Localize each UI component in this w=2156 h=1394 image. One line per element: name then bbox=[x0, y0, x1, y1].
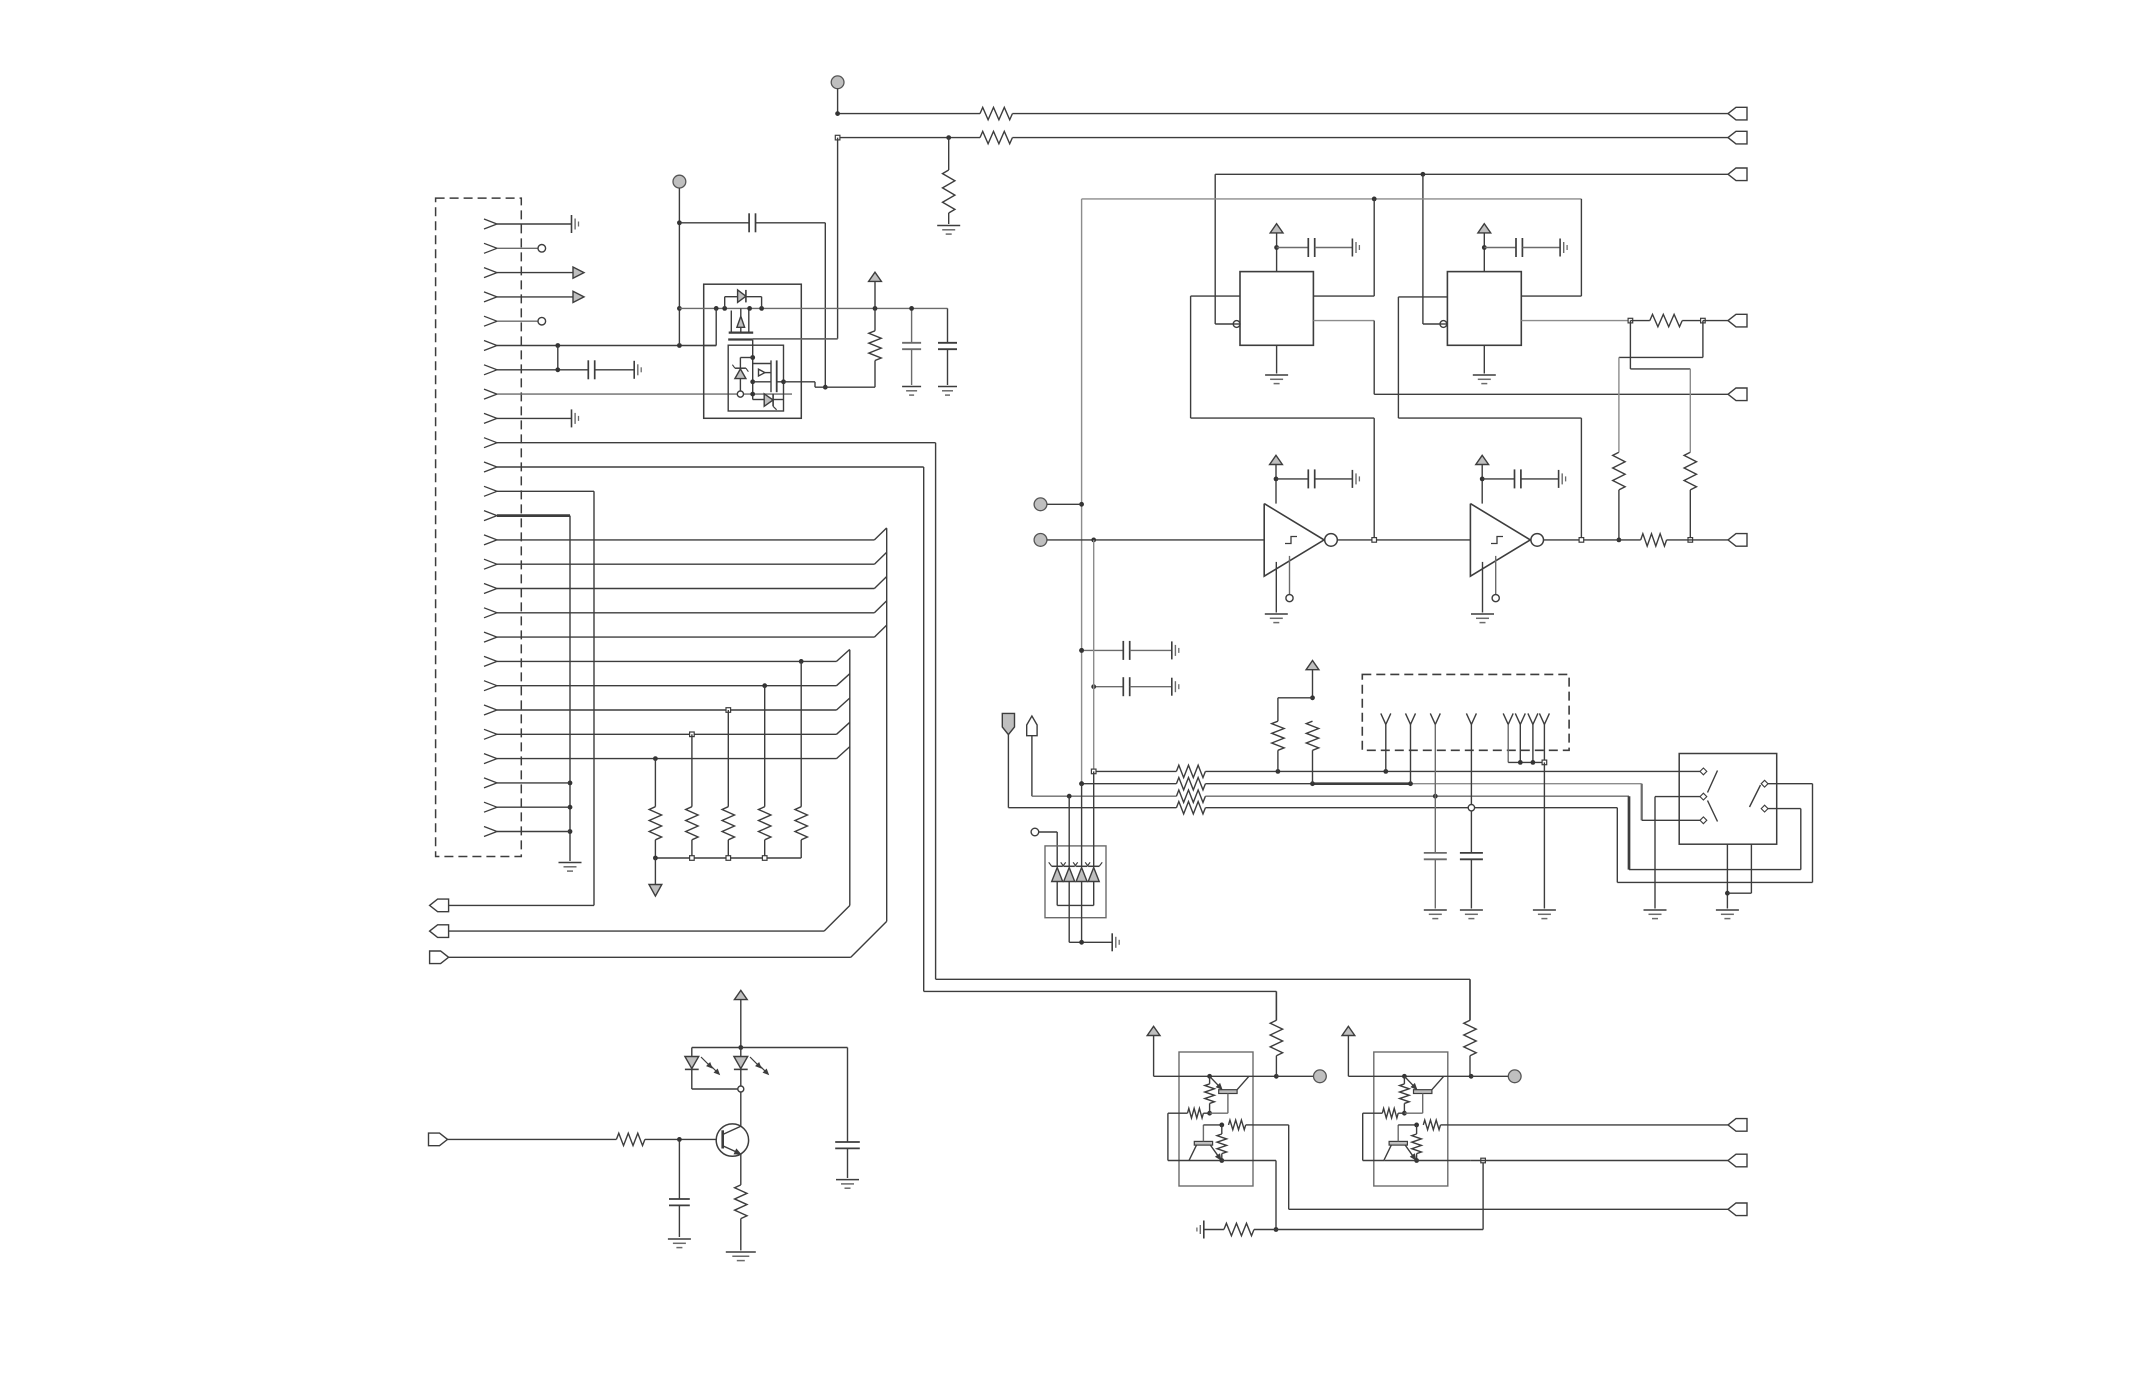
wire C6 link bbox=[1094, 686, 1124, 688]
wire C4 to ground bbox=[1521, 478, 1559, 480]
terminal X13 bbox=[1728, 1203, 1747, 1216]
wire C6 to ground bbox=[1130, 686, 1172, 688]
wire C2 link bbox=[1484, 247, 1516, 249]
wire J1-15 merge bbox=[497, 563, 874, 565]
resistor R33 bbox=[1204, 1229, 1224, 1231]
switch U6 box bbox=[1679, 754, 1777, 845]
ground GND11 bbox=[1171, 678, 1173, 696]
pin D5 nc bbox=[1031, 828, 1039, 836]
wire Q1 input path bbox=[1253, 1124, 1289, 1126]
wire bus W3 bbox=[1032, 795, 1177, 797]
wire bus W4 bbox=[1008, 807, 1176, 809]
ground GND17 bbox=[1111, 933, 1113, 951]
capacitor C4 bbox=[1514, 469, 1516, 488]
resistor R23 bbox=[1270, 1020, 1282, 1055]
capacitor C1 bbox=[1307, 238, 1309, 257]
terminal X2 bbox=[1728, 131, 1747, 144]
terminal X5 bbox=[1728, 314, 1747, 327]
resistor R4 bbox=[1650, 314, 1682, 326]
wire J1-12 long bbox=[497, 490, 594, 492]
node TP6 bbox=[1471, 1075, 1508, 1077]
capacitor C14 bbox=[741, 1047, 848, 1049]
terminal X1 bbox=[1728, 107, 1747, 120]
pin U6-D bbox=[1761, 780, 1768, 787]
transistor block Q2 box bbox=[1374, 1052, 1448, 1186]
wire U3 ground pin bbox=[1483, 345, 1485, 373]
transistor block Q1 box bbox=[1179, 1052, 1253, 1186]
wire Q1a base bbox=[1227, 1094, 1229, 1114]
flag terminal F2 bbox=[1027, 716, 1037, 736]
resistor R5 bbox=[1684, 452, 1696, 490]
transistor Q1a (pnp) bbox=[1210, 1076, 1222, 1089]
flag terminal F1 bbox=[1002, 713, 1014, 734]
wire J2 shield bus bbox=[1508, 761, 1544, 763]
wire Q1 collector rail bbox=[1179, 1075, 1276, 1077]
ground GND13 bbox=[1424, 909, 1447, 911]
wire led anode join bbox=[692, 1088, 741, 1090]
resistor R15 bbox=[764, 686, 766, 807]
wire clock loop bbox=[1082, 198, 1582, 200]
ground GND24 bbox=[668, 1238, 691, 1240]
resistor R23 feed bbox=[1275, 991, 1277, 1020]
pin J1-13 bbox=[484, 511, 497, 521]
capacitor C5 bbox=[1122, 641, 1124, 660]
wire J1-6 entry bbox=[704, 345, 717, 347]
pin J2-5 bbox=[1503, 713, 1513, 724]
pin J1-23 bbox=[484, 754, 497, 764]
node TP3 bbox=[1034, 534, 1047, 547]
wire Q2 collector rail bbox=[1374, 1075, 1471, 1077]
wire net2 second rail bbox=[838, 137, 980, 139]
pin J1-14 bbox=[484, 535, 497, 545]
pin J2-3 bbox=[1430, 713, 1440, 724]
block U1 box bbox=[704, 284, 802, 418]
terminal X10 bbox=[429, 1133, 448, 1146]
wire J1-24 bbox=[497, 782, 570, 784]
wire C1 to ground bbox=[1315, 247, 1353, 249]
wire Q2 input path bbox=[1448, 1124, 1728, 1126]
block U1 inner box bbox=[728, 345, 783, 411]
wire TP3 drop bbox=[1093, 540, 1095, 772]
resistor R3 bbox=[943, 170, 955, 213]
wire Q1 bottom rail bbox=[1190, 1160, 1276, 1162]
power VCC U3 bbox=[1478, 224, 1491, 233]
wire R4 leads bbox=[1630, 320, 1649, 322]
wire C10 loop bbox=[756, 222, 826, 224]
wire J1-22 merge bbox=[497, 733, 837, 735]
switch lever S1a bbox=[1708, 771, 1718, 793]
pin J1-9 bbox=[484, 413, 497, 423]
power VCC Q1 bbox=[1147, 1026, 1160, 1035]
ground GND5 bbox=[1473, 374, 1496, 376]
led D4b bbox=[740, 1048, 742, 1057]
power VCC U5 bbox=[1476, 455, 1489, 464]
wire J1-9 to ground bbox=[497, 417, 572, 419]
wire C5 link bbox=[1082, 649, 1124, 651]
terminal X6 bbox=[1728, 534, 1747, 547]
pin J2-6 bbox=[1515, 713, 1525, 724]
pin J2-1 bbox=[1381, 713, 1391, 724]
pin J1-7 bbox=[484, 365, 497, 375]
resistor R17 bbox=[691, 734, 693, 806]
resistor R14 bbox=[800, 661, 802, 806]
pin U6-E bbox=[1761, 805, 1768, 812]
ground GND23 bbox=[938, 386, 957, 388]
wire U3 feedback bbox=[1398, 296, 1447, 298]
connector J1 (dashed) bbox=[436, 198, 522, 856]
wire U2 ground pin bbox=[1276, 345, 1278, 373]
wire M1 gate bbox=[753, 338, 838, 340]
wire to U3 enable bbox=[1422, 174, 1424, 324]
resistor R16 bbox=[727, 710, 729, 807]
resistor R18 bbox=[654, 759, 656, 807]
ground GND7 bbox=[1265, 613, 1288, 615]
ground GND12 bbox=[1533, 909, 1556, 911]
wire Q2 bottom out bbox=[1471, 1160, 1728, 1162]
pin J1-11 bbox=[484, 462, 497, 472]
wire R7 to terminal bbox=[1667, 539, 1728, 541]
pin J1-19 bbox=[484, 656, 497, 666]
wire C5 to ground bbox=[1130, 649, 1172, 651]
power VCC U2 bbox=[1270, 224, 1283, 233]
pin J1-6 bbox=[484, 341, 497, 351]
wire U6-B to ground bbox=[1655, 796, 1700, 798]
resistor R24 feed bbox=[1469, 979, 1471, 1020]
node TP2 bbox=[1034, 498, 1047, 511]
pin J2-8 bbox=[1539, 713, 1549, 724]
wire J1-17 merge bbox=[497, 612, 874, 614]
pin J1-22 bbox=[484, 729, 497, 739]
wire TP1 gate drop bbox=[837, 138, 839, 339]
wire M2 gate node bbox=[752, 345, 754, 399]
wire D5b feed bbox=[1068, 796, 1070, 866]
resistor R20 bbox=[616, 1133, 645, 1145]
zener D2 bbox=[739, 358, 741, 369]
capacitor C9 bbox=[587, 360, 589, 379]
wire emitter bus bbox=[1276, 1229, 1483, 1231]
wire J1-16 merge bbox=[497, 588, 874, 590]
resistor R27 (input) bbox=[1188, 1108, 1204, 1118]
wire to U2 enable bbox=[1214, 174, 1216, 324]
wire M2 output bbox=[784, 381, 816, 383]
switch lever S2 bbox=[1750, 785, 1761, 807]
wire bus W2 bbox=[1082, 783, 1177, 785]
wire J1-26 bbox=[497, 831, 570, 833]
pin J1-3 bbox=[484, 268, 497, 278]
pin J1-10 bbox=[484, 438, 497, 448]
wire U1 vcc rail bbox=[679, 307, 947, 309]
power VCC U4 bbox=[1270, 455, 1283, 464]
resistor R29 (b-e) bbox=[1217, 1134, 1227, 1154]
power VCC opto bbox=[869, 272, 882, 281]
capacitor C3 bbox=[1307, 469, 1309, 488]
wire Q1b base bbox=[1202, 1125, 1204, 1142]
ground GND9 bbox=[1471, 613, 1494, 615]
capacitor C13 bbox=[678, 1139, 680, 1199]
terminal X12 bbox=[1728, 1154, 1747, 1167]
resistor R31 (input2) bbox=[1229, 1120, 1246, 1130]
wire C1 link bbox=[1277, 247, 1309, 249]
ground GND19 bbox=[633, 361, 635, 379]
ground GND6 bbox=[1351, 470, 1353, 488]
wire U5 out bbox=[1544, 539, 1641, 541]
capacitor C7 bbox=[1434, 796, 1436, 853]
led D4a arrows bbox=[701, 1057, 712, 1068]
zener D3 bbox=[753, 399, 765, 401]
wire Q2 bottom rail bbox=[1385, 1160, 1471, 1162]
wire J1-13 (bold) bbox=[497, 514, 570, 517]
transistor Q2b (npn) bbox=[1389, 1141, 1407, 1145]
terminal X4 bbox=[1728, 388, 1747, 401]
wire R19 bottom bbox=[841, 386, 875, 388]
wire resistor rail bbox=[655, 857, 801, 859]
led D4a bbox=[685, 1057, 699, 1069]
resistor R24 bbox=[1464, 1020, 1476, 1055]
wire J1-25 bbox=[497, 806, 570, 808]
pin U5 nc bbox=[1495, 556, 1497, 595]
pin J1-25 bbox=[484, 802, 497, 812]
capacitor C12 bbox=[947, 308, 949, 342]
inverter U4 bbox=[1264, 504, 1324, 577]
wire J1-23 merge bbox=[497, 758, 837, 760]
pin J1-1 bbox=[484, 219, 497, 229]
node TP1 (test point, top) bbox=[831, 76, 844, 89]
wire Q1 base line bbox=[447, 1138, 616, 1140]
power VCC led bbox=[734, 990, 747, 999]
resistor R2 bbox=[980, 131, 1012, 143]
resistor R30 (b-e) bbox=[1412, 1134, 1422, 1154]
pin J1-12 bbox=[484, 486, 497, 496]
pin U6-A bbox=[1700, 768, 1707, 775]
resistor R26 (base) bbox=[1400, 1084, 1410, 1104]
terminal X8 bbox=[430, 951, 449, 964]
wire C3 to ground bbox=[1315, 478, 1353, 480]
inverter U5 bbox=[1470, 504, 1530, 577]
oscillator U2 bbox=[1240, 272, 1313, 346]
wire C2 to ground bbox=[1522, 247, 1560, 249]
wire J1-7 cap link bbox=[497, 369, 588, 371]
wire Q2a base bbox=[1422, 1094, 1424, 1114]
wire J1-19 merge bbox=[497, 660, 837, 662]
diodes D5a-D5d (zener array) bbox=[1052, 865, 1063, 867]
wire U2 out row1 bbox=[1313, 295, 1374, 297]
terminal X3 bbox=[1728, 168, 1747, 181]
transistor Q1 bbox=[716, 1124, 748, 1156]
terminal X9 bbox=[430, 925, 449, 938]
pin J1-2 bbox=[484, 243, 497, 253]
wire J1-6 to U1 bbox=[497, 345, 716, 347]
transistor M2 (n-fet) bbox=[770, 360, 772, 392]
wire U2 out row2 bbox=[1313, 320, 1374, 322]
wire Q1 left loop bbox=[1168, 1112, 1179, 1114]
wire R5 leads bbox=[1689, 369, 1691, 452]
power VCC R12R13 bbox=[1306, 661, 1319, 670]
wire net3 third rail bbox=[1215, 173, 1728, 175]
wire bus W1 bbox=[1094, 770, 1177, 772]
pin U4 nc bbox=[1289, 556, 1291, 595]
capacitor C6 bbox=[1122, 677, 1124, 696]
switch lever S1b bbox=[1708, 801, 1718, 822]
wire R3 feed bbox=[948, 138, 950, 170]
resistor R7 bbox=[1641, 534, 1667, 546]
resistor R21 bbox=[735, 1185, 747, 1219]
wire U2 feedback bbox=[1191, 295, 1240, 297]
pin J1-18 bbox=[484, 632, 497, 642]
pin J2-4 bbox=[1466, 713, 1476, 724]
wire collector B bbox=[849, 650, 851, 906]
wire C3 link bbox=[1276, 478, 1308, 480]
wire led top rail bbox=[692, 1047, 741, 1049]
connector J2 (dashed) bbox=[1362, 674, 1569, 750]
transistor M1 (p-fet) bbox=[740, 308, 742, 316]
diode D1 bbox=[724, 297, 726, 309]
pin J1-4 bbox=[484, 292, 497, 302]
pin J1-5 bbox=[484, 316, 497, 326]
pin U2 enable bubble bbox=[1233, 321, 1240, 328]
wire J1-1 to ground bbox=[497, 223, 572, 225]
pin J1-24 bbox=[484, 778, 497, 788]
pin J1-26 bbox=[484, 827, 497, 837]
wire D5 anode rail bbox=[1057, 904, 1094, 906]
transistor Q2a (pnp) bbox=[1404, 1076, 1416, 1089]
ground GND14 bbox=[1460, 909, 1483, 911]
resistor R12 bbox=[1272, 721, 1284, 750]
pin J1-16 bbox=[484, 584, 497, 594]
resistor R25 (base) bbox=[1205, 1084, 1215, 1104]
wire J1-18 merge bbox=[497, 636, 874, 638]
pin J1-17 bbox=[484, 608, 497, 618]
oscillator U3 bbox=[1447, 272, 1521, 346]
node TP5 bbox=[1276, 1075, 1313, 1077]
wire R6 top link bbox=[1702, 321, 1704, 358]
wire J1-4 out bbox=[497, 296, 573, 298]
ground GND18 bbox=[571, 215, 573, 233]
ground GND10 bbox=[1171, 641, 1173, 659]
wire J1-11 long bbox=[497, 466, 924, 468]
wire D5c feed bbox=[1081, 784, 1083, 867]
wire U6 ground pin2 bbox=[1750, 844, 1752, 893]
wire J1-10 long bbox=[497, 442, 936, 444]
ground GND25 bbox=[726, 1251, 756, 1253]
ground GND16 bbox=[1716, 909, 1739, 911]
wire R3 to ground bbox=[948, 213, 950, 224]
wire J1-2 nc bbox=[497, 247, 538, 249]
resistor R32 (input2) bbox=[1423, 1120, 1440, 1130]
pin U6-C bbox=[1700, 817, 1707, 824]
capacitor C10 bbox=[748, 213, 750, 232]
ground GND1 bbox=[937, 225, 960, 227]
wire Q1 collector bbox=[740, 1089, 742, 1126]
pin J2-7 bbox=[1528, 713, 1538, 724]
node TP4 bbox=[673, 175, 686, 188]
wire collector A bbox=[886, 528, 888, 921]
wire U3 out row1 bbox=[1521, 295, 1581, 297]
wire D5d feed bbox=[1093, 771, 1095, 866]
capacitor C8 bbox=[1470, 811, 1472, 853]
wire J1-5 nc bbox=[497, 320, 538, 322]
ground GND26 bbox=[836, 1179, 859, 1181]
ground GND15 bbox=[1644, 909, 1667, 911]
arrow A1 bbox=[573, 267, 584, 278]
resistor R10 bbox=[1176, 790, 1205, 802]
pin J1-20 bbox=[484, 681, 497, 691]
resistor R9 bbox=[1176, 778, 1205, 790]
resistor R11 bbox=[1176, 802, 1205, 814]
wire U4 ground pin bbox=[1275, 562, 1277, 613]
transistor Q1b (npn) bbox=[1194, 1141, 1212, 1145]
ground GND3 bbox=[1265, 374, 1288, 376]
led D4b arrows bbox=[750, 1057, 761, 1068]
wire Q2 left loop bbox=[1363, 1112, 1374, 1114]
wire C4 link bbox=[1482, 478, 1514, 480]
wire net1 top rail bbox=[838, 113, 980, 115]
wire Q2b base bbox=[1397, 1125, 1399, 1142]
wire U5 ground pin bbox=[1482, 562, 1484, 613]
diode array D5 box bbox=[1045, 846, 1106, 918]
ground GND2 bbox=[1351, 239, 1353, 257]
wire U6 ground pin1 bbox=[1726, 844, 1728, 908]
resistor R8 bbox=[1176, 765, 1205, 777]
wire J1-3 out bbox=[497, 272, 573, 274]
wire Q1 emitter drop bbox=[1275, 1161, 1277, 1230]
terminal X11 bbox=[1728, 1119, 1747, 1132]
capacitor C11 bbox=[911, 308, 913, 342]
wire J1-20 merge bbox=[497, 685, 837, 687]
wire J1-14 merge bbox=[497, 539, 874, 541]
power VEE bbox=[649, 885, 662, 897]
wire J1-8 (zener line) bbox=[497, 393, 792, 395]
wire U4 out bbox=[1337, 539, 1470, 541]
power VCC Q2 bbox=[1342, 1026, 1355, 1035]
wire J1-21 merge bbox=[497, 709, 837, 711]
pin J1-21 bbox=[484, 705, 497, 715]
wire U3 out row2 bbox=[1521, 320, 1630, 322]
ground GND8 bbox=[1558, 470, 1560, 488]
pin J1-8 bbox=[484, 389, 497, 399]
pin J2-2 bbox=[1406, 713, 1416, 724]
ground GND4 bbox=[1559, 239, 1561, 257]
ground GND22 bbox=[902, 386, 921, 388]
wire R21 to ground bbox=[740, 1219, 742, 1251]
ground GND27 bbox=[1203, 1221, 1205, 1239]
wire C10 link bbox=[679, 222, 749, 224]
resistor R13 bbox=[1306, 721, 1318, 750]
terminal X7 bbox=[430, 899, 449, 912]
capacitor C2 bbox=[1515, 238, 1517, 257]
resistor R1 bbox=[980, 107, 1012, 119]
wire R6 leads bbox=[1618, 357, 1620, 452]
resistor R6 bbox=[1613, 452, 1625, 490]
ground GND20 bbox=[571, 409, 573, 427]
pin J1-15 bbox=[484, 559, 497, 569]
ground GND21 bbox=[559, 862, 582, 864]
pin U3 enable bubble bbox=[1440, 321, 1447, 328]
arrow A2 bbox=[573, 291, 584, 302]
resistor R28 (input) bbox=[1382, 1108, 1398, 1118]
pin U6-B bbox=[1700, 793, 1707, 800]
wire C9 to ground bbox=[595, 369, 635, 371]
resistor R19 bbox=[869, 331, 881, 361]
wire R5 top link bbox=[1629, 321, 1631, 369]
wire Q1 emitter bbox=[740, 1154, 742, 1185]
